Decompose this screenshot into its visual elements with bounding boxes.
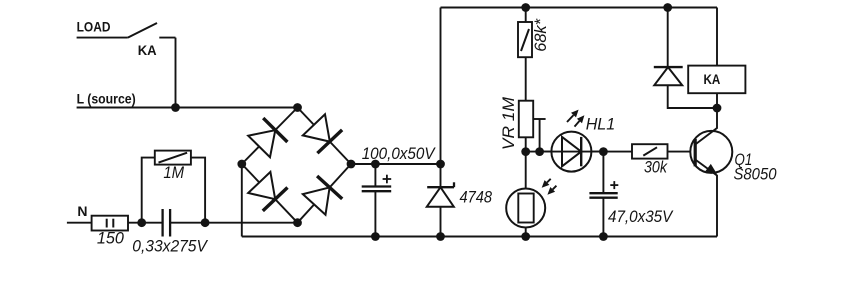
svg-text:HL1: HL1 (586, 115, 616, 134)
resistor 1M (155, 151, 191, 165)
wire cap47 top lead (602, 152, 604, 194)
Q1 emitter (695, 160, 717, 237)
wire mid line left (526, 151, 632, 153)
LED HL1 (551, 132, 591, 172)
transistor Q1 (690, 131, 732, 173)
junction L/switch (171, 103, 180, 112)
junction node right of C (201, 218, 210, 227)
wire LDR bottom lead (525, 228, 527, 237)
Q1 emitter arrow (705, 164, 717, 174)
LDR arrows (547, 179, 551, 183)
Q1 collector (695, 108, 717, 145)
photoresistor LDR (506, 189, 545, 228)
wire relay top lead (716, 8, 718, 66)
wire 30k to base (668, 151, 696, 153)
junction wiper node (535, 147, 544, 156)
svg-text:L (source): L (source) (77, 91, 136, 107)
Q1 base bar (694, 139, 697, 166)
wire 1M right branch (191, 158, 205, 223)
wire C to bridge bottom (170, 222, 297, 224)
wire N lead (67, 222, 92, 224)
diode bridge D1 (left to top) (248, 130, 275, 157)
polarity + of 47,0x35V (610, 184, 618, 186)
junction bridge top (293, 103, 302, 112)
diode flyback (654, 66, 683, 68)
junction VR bottom (521, 147, 530, 156)
wire cap100 bottom lead (374, 191, 376, 236)
wire flyback bottom lead (668, 85, 717, 108)
junction top rail diode (663, 3, 672, 12)
wire 68k to VR (525, 57, 527, 100)
svg-text:KA: KA (704, 72, 721, 87)
zener diode 4748 (427, 187, 454, 207)
junction mid node (599, 147, 608, 156)
switch KA fixed contact (159, 37, 175, 39)
junction bridge bottom (293, 218, 302, 227)
wire top rail (441, 7, 718, 9)
wire bridge arm bottom-right (298, 164, 352, 223)
svg-text:0,33x275V: 0,33x275V (132, 236, 208, 255)
junction cap100 bottom (371, 232, 380, 241)
junction bridge left (237, 160, 246, 169)
svg-text:N: N (77, 203, 87, 219)
wire zener bottom lead (440, 207, 442, 237)
svg-text:150: 150 (97, 228, 125, 247)
svg-text:30k: 30k (644, 158, 668, 177)
wire L line (77, 107, 298, 109)
wire flyback top lead (667, 8, 669, 68)
junction cap47 bottom (599, 232, 608, 241)
svg-text:4748: 4748 (460, 188, 493, 207)
diode bridge D4 (bottom to right) (303, 187, 330, 214)
wire bridge arm left-bottom (242, 164, 298, 223)
junction node left of C (137, 218, 146, 227)
wire VR bottom lead (525, 137, 527, 151)
wire VR wiper down (539, 119, 541, 152)
wire relay bottom lead (716, 93, 718, 108)
wire bottom rail (242, 236, 717, 238)
diode bridge D2 (top to right) (303, 114, 330, 141)
wire bridge arm top-right (298, 108, 352, 165)
wire left riser to top rail (440, 8, 442, 188)
wire 68k top lead (525, 8, 527, 23)
relay coil KA (688, 66, 745, 94)
junction top rail 68k (521, 3, 530, 12)
resistor VR 1M (519, 101, 533, 138)
polarity + of 100,0x50V (383, 178, 392, 180)
junction zener top node (436, 160, 445, 169)
wire LDR top lead (525, 152, 527, 189)
wire bridge left to bottom rail (241, 164, 243, 237)
switch KA blade (128, 23, 157, 38)
svg-text:VR 1M: VR 1M (499, 96, 518, 150)
svg-text:100,0x50V: 100,0x50V (362, 144, 436, 163)
capacitor 0,33x275V (161, 209, 163, 237)
svg-text:KA: KA (138, 42, 157, 58)
junction bridge right (347, 160, 356, 169)
resistor 150 (92, 216, 128, 231)
svg-text:68k*: 68k* (531, 18, 550, 52)
wire 1M left branch (142, 158, 155, 223)
junction zener bottom (436, 232, 445, 241)
wire switch to L line (175, 38, 177, 108)
svg-text:47,0x35V: 47,0x35V (608, 207, 674, 226)
resistor 68k* (518, 22, 532, 57)
diode bridge D3 (left to bottom) (248, 172, 275, 199)
wire bridge right to zener node (351, 163, 441, 165)
wire 150 to C (128, 222, 163, 224)
capacitor 47,0x35V (589, 192, 617, 194)
junction cap100 top (371, 160, 380, 169)
junction LDR bottom (521, 232, 530, 241)
resistor 30k (632, 144, 668, 158)
wire cap100 top lead (374, 164, 376, 187)
svg-text:S8050: S8050 (734, 164, 778, 183)
junction relay/collector (713, 104, 722, 113)
wire cap47 bottom lead (602, 198, 604, 237)
wire LOAD lead (77, 37, 128, 39)
capacitor 100,0x50V (362, 185, 392, 187)
wire bridge arm left-top (242, 108, 298, 165)
LED HL1 arrows (567, 115, 574, 122)
svg-text:1M: 1M (163, 163, 184, 182)
wire VR wiper tap (533, 118, 545, 120)
svg-text:LOAD: LOAD (77, 19, 111, 35)
